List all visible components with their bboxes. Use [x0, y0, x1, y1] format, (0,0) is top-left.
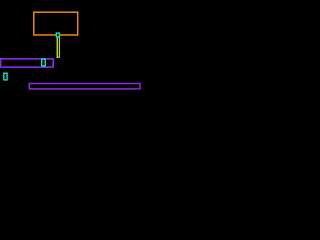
yellow wire left side [57, 37, 58, 58]
purple bar 2 [29, 84, 140, 89]
yellow wire right side [59, 37, 60, 58]
teal connector in bar [42, 59, 46, 66]
teal connector top [56, 33, 59, 37]
teal square left [4, 73, 7, 80]
orange box [34, 12, 78, 35]
purple bar 1 [1, 59, 54, 67]
yellow wire bottom cap [57, 57, 60, 58]
